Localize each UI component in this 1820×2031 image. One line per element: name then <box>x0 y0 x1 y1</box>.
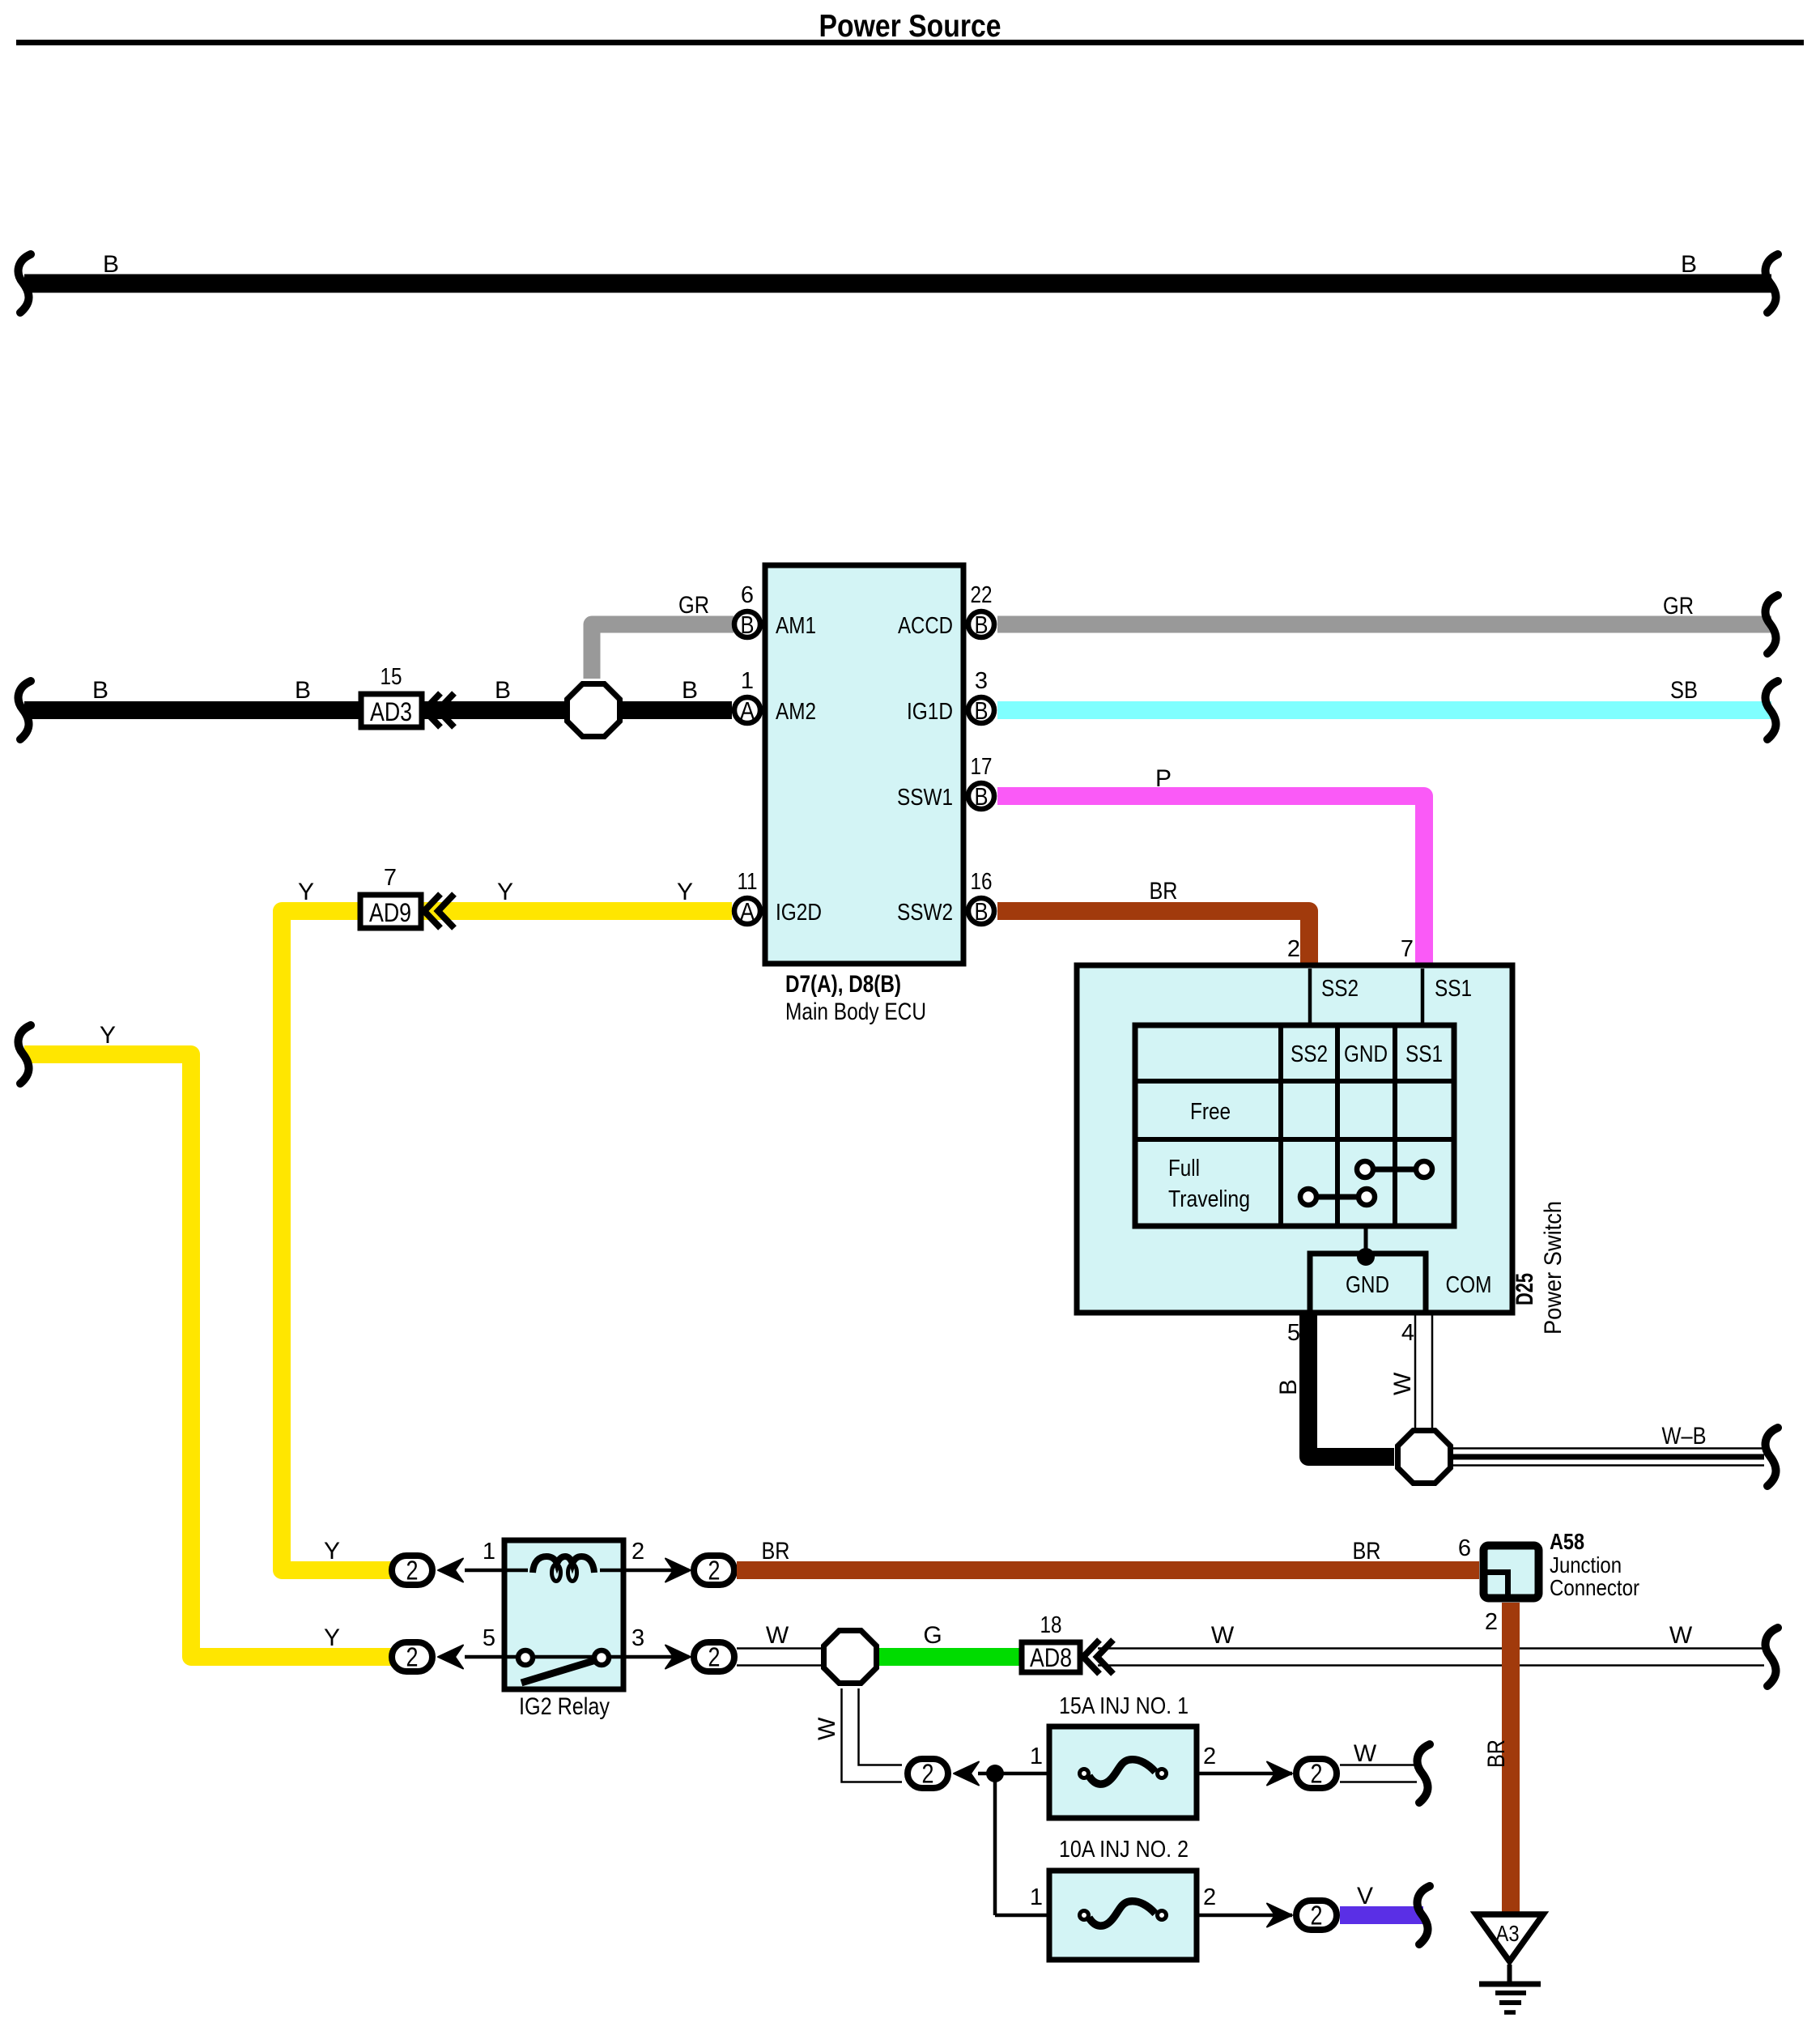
svg-text:GR: GR <box>1663 593 1694 620</box>
svg-text:A3: A3 <box>1496 1921 1520 1946</box>
svg-text:B: B <box>975 897 989 926</box>
svg-text:2: 2 <box>631 1539 644 1565</box>
svg-text:15A INJ NO. 1: 15A INJ NO. 1 <box>1059 1693 1189 1719</box>
svg-text:Free: Free <box>1190 1099 1231 1125</box>
svg-text:GND: GND <box>1346 1272 1389 1298</box>
svg-text:ACCD: ACCD <box>898 613 953 639</box>
svg-text:W: W <box>1389 1372 1416 1395</box>
svg-text:AM1: AM1 <box>776 613 816 639</box>
svg-text:Y: Y <box>100 1022 116 1049</box>
svg-text:G: G <box>923 1622 942 1649</box>
svg-text:Connector: Connector <box>1550 1575 1639 1600</box>
svg-text:1: 1 <box>483 1539 495 1565</box>
svg-text:17: 17 <box>971 754 993 780</box>
svg-text:2: 2 <box>1203 1884 1216 1910</box>
svg-text:W: W <box>1669 1622 1693 1649</box>
svg-text:SS1: SS1 <box>1405 1041 1443 1067</box>
svg-text:B: B <box>295 677 311 704</box>
svg-text:5: 5 <box>483 1625 495 1651</box>
svg-text:B: B <box>1275 1379 1302 1395</box>
svg-text:3: 3 <box>975 668 988 694</box>
svg-text:SSW1: SSW1 <box>897 785 953 811</box>
svg-text:Y: Y <box>298 879 314 905</box>
svg-text:6: 6 <box>741 582 754 608</box>
svg-text:Y: Y <box>677 879 693 905</box>
svg-text:Y: Y <box>324 1624 340 1651</box>
svg-text:IG2D: IG2D <box>776 900 822 926</box>
svg-text:4: 4 <box>1401 1320 1414 1346</box>
svg-text:Y: Y <box>324 1538 340 1565</box>
svg-text:AD3: AD3 <box>370 697 412 726</box>
svg-text:B: B <box>975 611 989 639</box>
svg-text:A58: A58 <box>1550 1529 1584 1554</box>
svg-text:SS2: SS2 <box>1291 1041 1328 1067</box>
svg-text:A: A <box>740 696 755 725</box>
svg-text:11: 11 <box>738 869 758 895</box>
svg-text:W: W <box>1354 1740 1377 1767</box>
svg-text:D25: D25 <box>1512 1273 1538 1305</box>
svg-text:BR: BR <box>762 1538 790 1565</box>
svg-text:BR: BR <box>1353 1538 1381 1565</box>
svg-text:BR: BR <box>1150 878 1178 905</box>
svg-text:B: B <box>495 677 511 704</box>
svg-text:BR: BR <box>1483 1739 1510 1768</box>
svg-text:Junction: Junction <box>1550 1552 1622 1578</box>
svg-text:1: 1 <box>1030 1884 1043 1910</box>
svg-text:AD8: AD8 <box>1030 1643 1072 1672</box>
svg-text:1: 1 <box>1030 1744 1043 1769</box>
svg-text:B: B <box>103 251 119 278</box>
svg-text:GR: GR <box>678 592 709 619</box>
svg-text:B: B <box>682 677 698 704</box>
svg-text:1: 1 <box>741 668 754 694</box>
svg-text:6: 6 <box>1458 1535 1471 1561</box>
svg-text:SS2: SS2 <box>1321 976 1359 1002</box>
svg-text:B: B <box>975 696 989 725</box>
svg-text:16: 16 <box>971 869 993 895</box>
svg-text:P: P <box>1155 765 1172 792</box>
svg-text:B: B <box>741 611 755 639</box>
svg-text:Power Switch: Power Switch <box>1540 1201 1567 1335</box>
svg-text:2: 2 <box>1485 1609 1498 1635</box>
svg-text:AD9: AD9 <box>369 898 411 927</box>
svg-text:Traveling: Traveling <box>1168 1186 1250 1212</box>
svg-text:Power Source: Power Source <box>819 9 1001 44</box>
svg-text:Full: Full <box>1168 1156 1200 1182</box>
svg-text:GND: GND <box>1344 1041 1388 1067</box>
svg-text:B: B <box>92 677 108 704</box>
svg-text:Y: Y <box>497 879 513 905</box>
svg-text:5: 5 <box>1287 1320 1300 1346</box>
svg-text:Main Body ECU: Main Body ECU <box>785 998 926 1025</box>
svg-text:AM2: AM2 <box>776 699 816 725</box>
svg-text:2: 2 <box>1287 936 1300 962</box>
svg-text:W: W <box>1211 1622 1235 1649</box>
svg-text:COM: COM <box>1446 1272 1492 1298</box>
svg-text:10A INJ NO. 2: 10A INJ NO. 2 <box>1059 1837 1189 1863</box>
svg-text:SSW2: SSW2 <box>897 900 953 926</box>
svg-text:B: B <box>1681 251 1697 278</box>
svg-text:22: 22 <box>971 582 993 608</box>
svg-text:B: B <box>975 782 989 811</box>
svg-text:IG1D: IG1D <box>907 699 953 725</box>
svg-text:18: 18 <box>1040 1612 1062 1638</box>
svg-text:2: 2 <box>1203 1744 1216 1769</box>
svg-text:15: 15 <box>381 664 402 690</box>
svg-text:W–B: W–B <box>1662 1423 1707 1450</box>
svg-text:D7(A), D8(B): D7(A), D8(B) <box>785 971 901 998</box>
svg-text:W: W <box>766 1622 789 1649</box>
svg-text:3: 3 <box>631 1625 644 1651</box>
svg-text:W: W <box>814 1717 840 1740</box>
svg-text:A: A <box>740 897 755 926</box>
svg-text:V: V <box>1357 1883 1373 1910</box>
svg-text:7: 7 <box>1401 936 1414 962</box>
svg-text:IG2 Relay: IG2 Relay <box>519 1693 610 1720</box>
svg-text:7: 7 <box>384 865 397 891</box>
svg-text:SS1: SS1 <box>1435 976 1472 1002</box>
svg-text:SB: SB <box>1670 677 1698 704</box>
